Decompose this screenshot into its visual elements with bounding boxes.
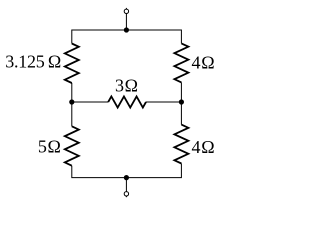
resistor R3 3 ohm (bridge) — [108, 96, 146, 107]
wire left rail middle segment — [71, 83, 73, 126]
terminal top — [124, 9, 128, 13]
svg-text:3.125 Ω: 3.125 Ω — [5, 52, 61, 72]
svg-text:3 Ω: 3 Ω — [115, 76, 138, 96]
wire bottom terminal lead — [125, 178, 127, 198]
wire middle left segment — [72, 101, 108, 103]
svg-text:4 Ω: 4 Ω — [192, 137, 215, 157]
resistor R1 3.125 ohm — [65, 44, 79, 84]
terminal bottom — [124, 192, 128, 196]
wire top terminal lead — [125, 8, 127, 30]
svg-text:4 Ω: 4 Ω — [192, 53, 215, 73]
node bottom junction — [124, 175, 129, 180]
resistor R5 4 ohm (bottom right) — [174, 125, 188, 164]
wire bottom rail with corner leads — [72, 164, 182, 178]
node top junction — [124, 27, 129, 32]
svg-text:5 Ω: 5 Ω — [38, 137, 61, 157]
wire right rail middle segment — [180, 82, 182, 124]
wire middle right segment — [146, 101, 181, 103]
resistor R2 4 ohm (top right) — [174, 43, 188, 82]
node left middle junction — [69, 99, 74, 104]
node right middle junction — [179, 99, 184, 104]
resistor R4 5 ohm — [65, 126, 79, 165]
wire top rail with corner leads — [72, 30, 182, 44]
